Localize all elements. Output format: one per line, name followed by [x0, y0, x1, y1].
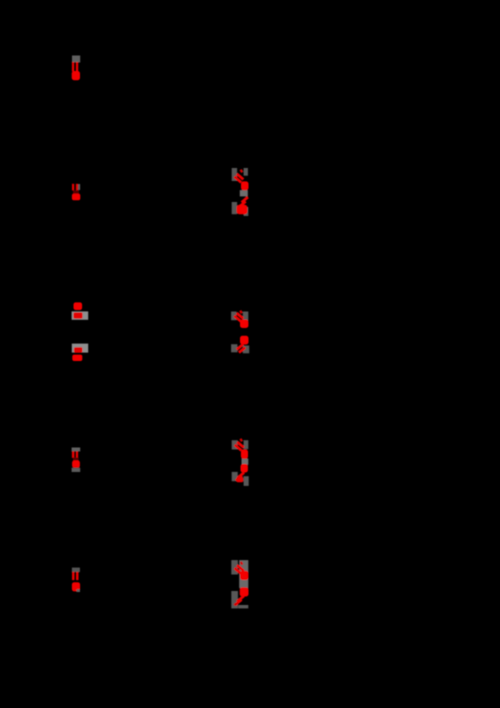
carbonyl group O6 (left, bottom) [72, 568, 80, 592]
carbonyl group O5 (left, fourth) [72, 448, 81, 473]
ester group E2 (right column, second) [231, 311, 249, 354]
ester group E4 (right column, bottom) [231, 560, 248, 608]
carbonyl group O1 (top left chain end) [72, 56, 81, 81]
ester group E3 (right column, third) [232, 439, 249, 486]
ester oxygen pair O3 (left-middle, upper of glycerol) [72, 302, 89, 319]
carbonyl group O2 (left, second) [72, 184, 80, 200]
ester group E1 (right column, top) [232, 168, 249, 216]
ester oxygen pair O4 (left-middle, lower of glycerol) [72, 344, 88, 361]
